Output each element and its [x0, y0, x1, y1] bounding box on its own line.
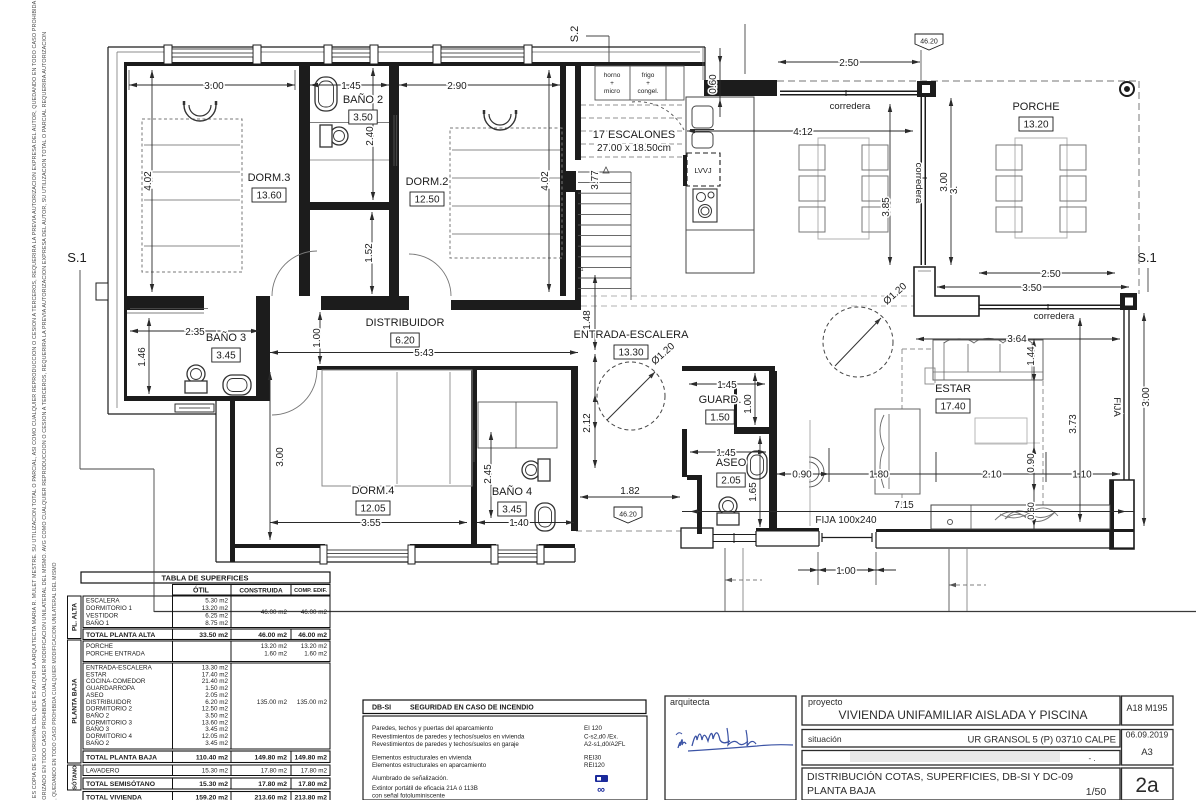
- svg-text:DORM.3: DORM.3: [248, 172, 291, 184]
- svg-text:3.50: 3.50: [1022, 283, 1042, 294]
- svg-text:corredera: corredera: [1034, 311, 1075, 322]
- svg-text:06.09.2019: 06.09.2019: [1126, 730, 1169, 740]
- svg-text:17 ESCALONES: 17 ESCALONES: [593, 129, 676, 141]
- svg-text:13.30: 13.30: [618, 348, 643, 359]
- svg-text:A18 M195: A18 M195: [1126, 703, 1167, 713]
- svg-text:VIVIENDA UNIFAMILIAR AISLADA Y: VIVIENDA UNIFAMILIAR AISLADA Y PISCINA: [839, 708, 1088, 722]
- svg-text:Revestimientos de paredes y te: Revestimientos de paredes y techos/suelo…: [372, 741, 519, 748]
- svg-text:BAÑO 2: BAÑO 2: [86, 738, 110, 747]
- svg-text:congel.: congel.: [638, 88, 659, 95]
- svg-text:frigo: frigo: [642, 72, 655, 79]
- svg-text:3.00: 3.00: [204, 81, 224, 92]
- svg-text:5.30 m2: 5.30 m2: [205, 598, 228, 605]
- svg-text:1.48: 1.48: [582, 310, 593, 330]
- svg-text:1.60 m2: 1.60 m2: [264, 651, 287, 658]
- svg-text:13.60: 13.60: [256, 191, 281, 202]
- svg-text:situación: situación: [808, 734, 842, 744]
- svg-text:2.50: 2.50: [1041, 269, 1061, 280]
- svg-text:0.60: 0.60: [1026, 502, 1036, 520]
- svg-text:3.: 3.: [949, 186, 960, 194]
- svg-text:0.60: 0.60: [708, 74, 719, 94]
- svg-text:17.40: 17.40: [940, 402, 965, 413]
- svg-text:12.50: 12.50: [414, 195, 439, 206]
- svg-text:SEGURIDAD EN CASO DE INCEN: SEGURIDAD EN CASO DE INCENDIO: [410, 705, 534, 712]
- svg-text:REI120: REI120: [584, 762, 605, 769]
- svg-text:149.80 m2: 149.80 m2: [294, 755, 327, 762]
- svg-text:ASEO: ASEO: [716, 457, 747, 469]
- svg-text:Elementos estructurales en viv: Elementos estructurales en vivienda: [372, 755, 472, 762]
- svg-text:3.45 m2: 3.45 m2: [205, 740, 228, 747]
- svg-text:+: +: [646, 80, 650, 87]
- svg-text:Elementos estructurales en apa: Elementos estructurales en aparcamiento: [372, 762, 487, 769]
- svg-text:0.90: 0.90: [792, 470, 812, 481]
- svg-text:2a: 2a: [1135, 774, 1159, 797]
- svg-text:FIJA: FIJA: [1111, 397, 1122, 417]
- svg-text:4.02: 4.02: [540, 171, 551, 191]
- svg-text:1.46: 1.46: [137, 347, 148, 367]
- svg-text:27.00 x 18.50cm: 27.00 x 18.50cm: [597, 143, 671, 154]
- svg-text:1/50: 1/50: [1086, 786, 1107, 798]
- svg-text:Revestimientos de paredes y te: Revestimientos de paredes y techos/suelo…: [372, 734, 525, 741]
- svg-text:BAÑO 1: BAÑO 1: [86, 618, 110, 627]
- svg-text:2.05: 2.05: [721, 476, 741, 487]
- svg-text:A3: A3: [1141, 747, 1153, 758]
- svg-text:17.80 m2: 17.80 m2: [298, 781, 327, 788]
- svg-text:2.10: 2.10: [982, 470, 1002, 481]
- svg-text:horno: horno: [604, 72, 621, 79]
- svg-text:PLANTA BAJA: PLANTA BAJA: [72, 678, 79, 723]
- svg-text:PORCHE: PORCHE: [86, 643, 113, 650]
- svg-text:BAÑO 4: BAÑO 4: [492, 485, 532, 498]
- svg-text:TOTAL PLANTA BAJA: TOTAL PLANTA BAJA: [86, 755, 157, 762]
- svg-text:7.15: 7.15: [894, 500, 914, 511]
- svg-text:13.20 m2: 13.20 m2: [301, 643, 328, 650]
- svg-text:135.00 m2: 135.00 m2: [297, 699, 328, 706]
- svg-text:33.50 m2: 33.50 m2: [199, 632, 228, 639]
- svg-text:3.77: 3.77: [590, 170, 601, 190]
- svg-text:PORCHE: PORCHE: [1012, 101, 1059, 113]
- svg-text:17.80 m2: 17.80 m2: [258, 781, 287, 788]
- svg-text:TABLA DE SUPERFICES: TABLA DE SUPERFICES: [161, 574, 248, 583]
- svg-text:8.75 m2: 8.75 m2: [205, 620, 228, 627]
- svg-text:1.65: 1.65: [748, 482, 759, 502]
- svg-text:3.00: 3.00: [1141, 387, 1152, 407]
- svg-text:4.12: 4.12: [793, 127, 813, 138]
- svg-text:TOTAL SEMISÓTANO: TOTAL SEMISÓTANO: [86, 779, 155, 788]
- svg-text:ARTE, AUTORIZADO EN TODO CASO: ARTE, AUTORIZADO EN TODO CASO PROHIBIDA …: [42, 32, 48, 800]
- svg-text:EL PRESENTE DOCUMENTO ES COPIA: EL PRESENTE DOCUMENTO ES COPIA DE SU ORI…: [32, 0, 38, 800]
- svg-text:46.20: 46.20: [619, 512, 637, 519]
- svg-text:13.20: 13.20: [1023, 120, 1048, 131]
- svg-text:ENTRADA-ESCALERA: ENTRADA-ESCALERA: [574, 329, 690, 341]
- svg-text:FIJA 100x240: FIJA 100x240: [815, 515, 877, 526]
- svg-text:A2-s1,d0/A2FL: A2-s1,d0/A2FL: [584, 741, 626, 748]
- svg-text:46.00 m2: 46.00 m2: [298, 632, 327, 639]
- svg-text:REI30: REI30: [584, 755, 602, 762]
- svg-text:UR GRANSOL 5 (P) 03710 CALPE: UR GRANSOL 5 (P) 03710 CALPE: [967, 735, 1116, 746]
- svg-text:COMP. EDIF.: COMP. EDIF.: [294, 588, 327, 594]
- svg-text:3.50: 3.50: [353, 113, 373, 124]
- svg-text:DORM.2: DORM.2: [406, 176, 449, 188]
- svg-text:arquitecta: arquitecta: [670, 697, 710, 707]
- svg-text:17.80 m2: 17.80 m2: [261, 768, 288, 775]
- svg-text:DISTRIBUIDOR: DISTRIBUIDOR: [366, 317, 445, 329]
- svg-text:3.73: 3.73: [1068, 414, 1079, 434]
- svg-text:1: 1: [581, 267, 584, 273]
- svg-text:- .: - .: [1088, 754, 1095, 763]
- svg-text:15.30 m2: 15.30 m2: [202, 768, 229, 775]
- svg-text:ÓTIL: ÓTIL: [193, 586, 210, 595]
- svg-text:1.45: 1.45: [717, 380, 737, 391]
- svg-text:DB-SI: DB-SI: [372, 705, 391, 712]
- svg-text:213.60 m2: 213.60 m2: [254, 795, 287, 800]
- svg-text:2.12: 2.12: [582, 413, 593, 433]
- svg-text:1.80: 1.80: [869, 470, 889, 481]
- svg-text:6.20: 6.20: [395, 336, 415, 347]
- svg-text:DORMITORIO 1: DORMITORIO 1: [86, 605, 133, 612]
- svg-text:2.40: 2.40: [365, 126, 376, 146]
- svg-text:CONSTRUIDA: CONSTRUIDA: [239, 588, 283, 595]
- svg-text:SÓTANO: SÓTANO: [71, 765, 79, 790]
- svg-text:DISTRIBUCIÓN COTAS, SUPERFICIE: DISTRIBUCIÓN COTAS, SUPERFICIES, DB-SI Y…: [807, 770, 1073, 783]
- svg-text:4.02: 4.02: [143, 171, 154, 191]
- svg-text:2.35: 2.35: [185, 327, 205, 338]
- svg-text:1.00: 1.00: [836, 566, 856, 577]
- svg-text:1.52: 1.52: [364, 243, 375, 263]
- svg-text:BAÑO 3: BAÑO 3: [206, 331, 246, 344]
- svg-text:AUTOR, QUEDANDO EN TODO CASO P: AUTOR, QUEDANDO EN TODO CASO PROHIBIDA C…: [52, 562, 58, 800]
- svg-text:1.82: 1.82: [620, 486, 640, 497]
- svg-text:12.05: 12.05: [360, 504, 385, 515]
- svg-text:∞: ∞: [597, 784, 605, 796]
- svg-text:ESTAR: ESTAR: [935, 383, 971, 395]
- svg-text:S.1: S.1: [67, 250, 87, 265]
- svg-text:159.20 m2: 159.20 m2: [195, 795, 228, 800]
- svg-text:15.30 m2: 15.30 m2: [199, 781, 228, 788]
- svg-text:GUARD.: GUARD.: [699, 394, 742, 406]
- svg-text:PORCHE ENTRADA: PORCHE ENTRADA: [86, 651, 146, 658]
- svg-text:1.10: 1.10: [1072, 470, 1092, 481]
- svg-text:BAÑO 2: BAÑO 2: [343, 93, 383, 106]
- svg-text:110.40 m2: 110.40 m2: [196, 755, 228, 762]
- svg-text:EI 120: EI 120: [584, 725, 602, 732]
- svg-text:3.00: 3.00: [275, 447, 286, 467]
- svg-text:Paredes, techos y puertas del: Paredes, techos y puertas del aparcamien…: [372, 725, 494, 732]
- svg-text:13.20 m2: 13.20 m2: [202, 605, 229, 612]
- svg-text:1.50: 1.50: [710, 413, 730, 424]
- svg-text:S.1: S.1: [1137, 250, 1157, 265]
- svg-text:BAÑO 2: BAÑO 2: [86, 710, 110, 719]
- svg-text:1.45: 1.45: [341, 81, 361, 92]
- svg-text:con señal fotoluminiscente: con señal fotoluminiscente: [372, 793, 445, 800]
- svg-text:PL. ALTA: PL. ALTA: [72, 603, 79, 631]
- svg-text:S.2: S.2: [569, 26, 581, 43]
- svg-text:3.45: 3.45: [502, 505, 522, 516]
- svg-text:46.00 m2: 46.00 m2: [258, 632, 287, 639]
- svg-text:3.64: 3.64: [1007, 334, 1027, 345]
- svg-text:3.55: 3.55: [361, 518, 381, 529]
- svg-text:micro: micro: [604, 88, 620, 95]
- svg-text:LVVJ: LVVJ: [694, 166, 712, 175]
- svg-text:corredera: corredera: [913, 163, 924, 204]
- svg-text:2.90: 2.90: [447, 81, 467, 92]
- svg-text:+: +: [610, 80, 614, 87]
- svg-text:VESTIDOR: VESTIDOR: [86, 613, 119, 620]
- svg-text:13.20 m2: 13.20 m2: [261, 643, 288, 650]
- svg-text:46.00 m2: 46.00 m2: [261, 609, 288, 616]
- svg-text:1.60 m2: 1.60 m2: [304, 651, 327, 658]
- svg-text:Extintor portátil de eficacia: Extintor portátil de eficacia 21A ó 113B: [372, 785, 478, 792]
- svg-text:1.44: 1.44: [1026, 346, 1037, 366]
- svg-text:PLANTA BAJA: PLANTA BAJA: [807, 785, 876, 797]
- svg-text:LAVADERO: LAVADERO: [86, 768, 119, 775]
- svg-text:6.25 m2: 6.25 m2: [205, 613, 228, 620]
- svg-text:BAÑO 3: BAÑO 3: [86, 724, 110, 733]
- svg-text:135.00 m2: 135.00 m2: [257, 699, 288, 706]
- svg-text:proyecto: proyecto: [808, 697, 843, 707]
- svg-text:46.00 m2: 46.00 m2: [301, 609, 328, 616]
- svg-text:C-s2,d0 /Ex.: C-s2,d0 /Ex.: [584, 734, 618, 741]
- svg-text:3.85: 3.85: [881, 197, 892, 217]
- svg-text:2.45: 2.45: [483, 464, 494, 484]
- svg-text:17.80 m2: 17.80 m2: [301, 768, 328, 775]
- svg-text:1.40: 1.40: [509, 518, 529, 529]
- svg-text:1.00: 1.00: [312, 328, 323, 348]
- svg-text:46.20: 46.20: [920, 39, 938, 46]
- svg-text:0.90: 0.90: [1026, 453, 1037, 473]
- svg-text:DORM.4: DORM.4: [352, 485, 395, 497]
- svg-text:Alumbrado de señalización.: Alumbrado de señalización.: [372, 775, 448, 782]
- svg-text:ESCALERA: ESCALERA: [86, 598, 120, 605]
- svg-text:1.00: 1.00: [743, 394, 754, 414]
- svg-text:5.43: 5.43: [414, 348, 434, 359]
- svg-text:corredera: corredera: [830, 101, 871, 112]
- svg-text:TOTAL PLANTA ALTA: TOTAL PLANTA ALTA: [86, 632, 155, 639]
- svg-text:TOTAL VIVIENDA: TOTAL VIVIENDA: [86, 795, 142, 800]
- svg-text:149.80 m2: 149.80 m2: [254, 755, 287, 762]
- svg-text:213.80 m2: 213.80 m2: [294, 795, 327, 800]
- svg-text:3.45: 3.45: [216, 351, 236, 362]
- svg-text:2.50: 2.50: [839, 58, 859, 69]
